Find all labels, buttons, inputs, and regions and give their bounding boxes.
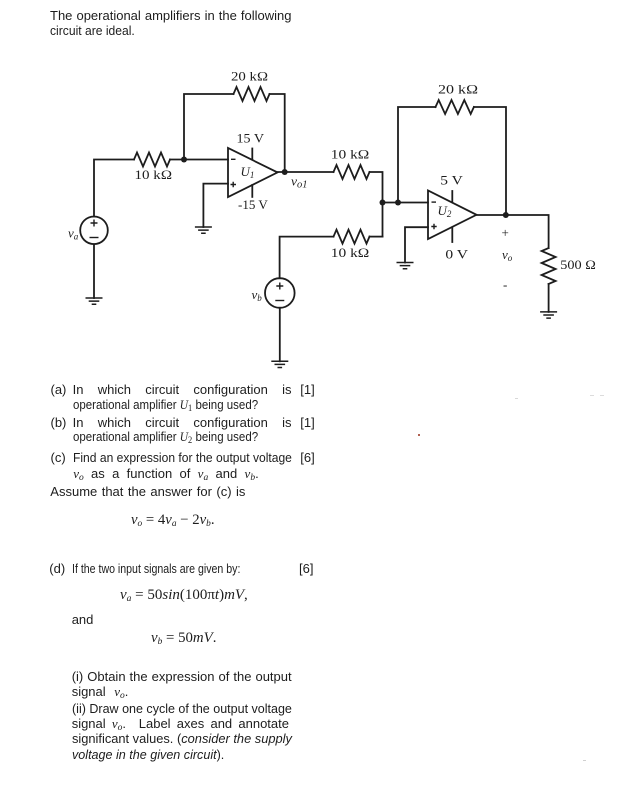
svg-text:+: +	[502, 225, 509, 240]
svg-text:U2: U2	[438, 203, 452, 219]
svg-text:0 V: 0 V	[445, 247, 468, 262]
svg-text:20 kΩ: 20 kΩ	[231, 69, 268, 84]
svg-text:10 kΩ: 10 kΩ	[331, 147, 370, 162]
svg-text:vb: vb	[252, 287, 263, 303]
svg-text:15 V: 15 V	[237, 131, 265, 146]
svg-text:va: va	[68, 226, 79, 242]
svg-text:500 Ω: 500 Ω	[560, 257, 596, 272]
svg-text:-: -	[503, 277, 507, 292]
svg-text:10 kΩ: 10 kΩ	[135, 167, 173, 182]
svg-text:vo: vo	[502, 247, 513, 263]
svg-text:U1: U1	[241, 164, 255, 180]
svg-text:10 kΩ: 10 kΩ	[331, 245, 370, 260]
svg-text:vo1: vo1	[291, 174, 308, 191]
svg-text:20 kΩ: 20 kΩ	[438, 82, 478, 97]
svg-text:5 V: 5 V	[440, 173, 463, 188]
svg-text:-15 V: -15 V	[238, 197, 268, 212]
